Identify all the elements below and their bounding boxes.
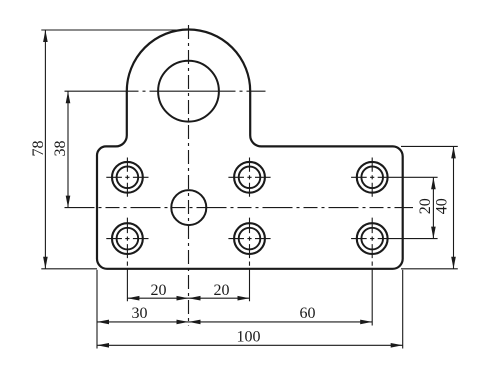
boss hole horizontal centerline (65, 90, 266, 92)
svg-text:20: 20 (214, 282, 230, 299)
hole A2 crosshair (228, 158, 270, 198)
counterbored hole A3 (357, 162, 388, 193)
dimension 20 bottom-left line (127, 297, 188, 299)
dimension 20 vertical line (432, 177, 434, 238)
hole B2 crosshair (228, 218, 270, 302)
hole B3 crosshair (351, 218, 438, 326)
svg-text:38: 38 (52, 141, 69, 157)
counterbored hole B3 (357, 223, 388, 254)
hole A1 crosshair (106, 158, 148, 198)
svg-text:100: 100 (237, 329, 261, 346)
extension line bottom edge left (dims 78) (41, 268, 97, 270)
counterbored hole A1 (112, 162, 143, 193)
dimension 20 bottom-right line (189, 297, 250, 299)
main horizontal centerline (65, 207, 414, 209)
counterbored hole B1 (112, 223, 143, 254)
extension line right edge bottom (dim 100) (402, 270, 404, 349)
plate outline (97, 29, 403, 268)
large bore hole (158, 61, 219, 122)
dimension 78 line (44, 30, 46, 269)
center hole (171, 190, 206, 225)
counterbored hole A2 (234, 162, 265, 193)
svg-text:20: 20 (151, 282, 167, 299)
main vertical centerline (188, 25, 190, 326)
hole A3 crosshair (351, 158, 438, 198)
svg-text:78: 78 (30, 141, 47, 157)
extension line right bottom edge (dims 40,100) (401, 268, 458, 270)
dimension 38 line (67, 91, 69, 207)
svg-text:30: 30 (132, 305, 148, 322)
hole B1 crosshair (106, 218, 148, 302)
dimension 30 line (97, 321, 189, 323)
dimension 40 line (453, 146, 455, 268)
extension line right top edge (dim 40) (401, 145, 458, 147)
extension line left edge bottom (dims 30,100) (96, 270, 98, 349)
svg-text:20: 20 (417, 198, 434, 214)
dimension 100 line (97, 344, 403, 346)
svg-text:40: 40 (434, 198, 451, 214)
extension line top of boss (dim 78) (41, 29, 188, 31)
counterbored hole B2 (234, 223, 265, 254)
dimension 60 line (189, 321, 373, 323)
svg-text:60: 60 (300, 305, 316, 322)
